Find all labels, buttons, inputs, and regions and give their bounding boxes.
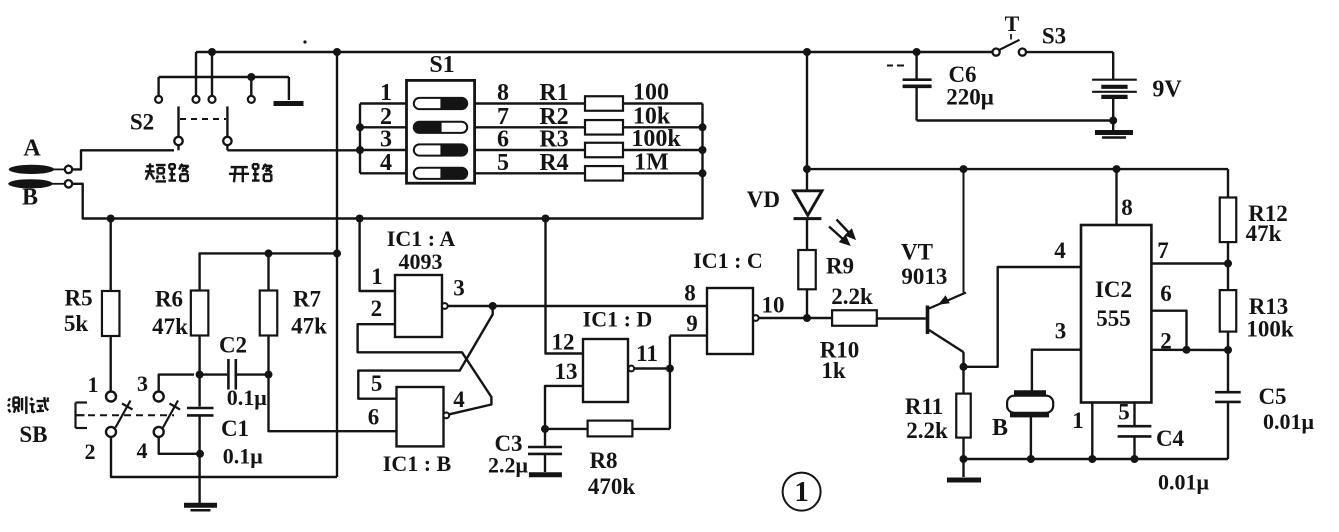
- svg-text:4: 4: [137, 438, 148, 463]
- svg-text:100k: 100k: [631, 126, 681, 152]
- svg-text:IC1 : D: IC1 : D: [583, 307, 653, 332]
- svg-text:1: 1: [794, 476, 809, 508]
- svg-text:6: 6: [497, 127, 509, 153]
- svg-text:IC1 : B: IC1 : B: [383, 451, 452, 476]
- svg-text:B: B: [992, 415, 1008, 441]
- svg-text:2.2k: 2.2k: [906, 418, 948, 443]
- svg-text:5: 5: [371, 371, 383, 396]
- svg-text:3: 3: [1055, 319, 1067, 344]
- svg-text:0.1μ: 0.1μ: [223, 444, 264, 469]
- svg-text:4: 4: [380, 150, 392, 176]
- svg-text:4: 4: [1054, 238, 1066, 263]
- svg-text:47k: 47k: [291, 314, 327, 339]
- svg-text:R9: R9: [826, 254, 854, 279]
- svg-text:8: 8: [1121, 195, 1133, 220]
- svg-text:6: 6: [368, 405, 380, 430]
- svg-text:C6: C6: [948, 62, 976, 87]
- svg-text:8: 8: [684, 281, 696, 306]
- svg-text:5: 5: [1118, 400, 1130, 425]
- svg-text:B: B: [22, 185, 38, 211]
- svg-text:9013: 9013: [901, 264, 947, 289]
- svg-text:C5: C5: [1258, 384, 1286, 409]
- svg-text:IC1 : C: IC1 : C: [693, 248, 763, 273]
- svg-text:2: 2: [85, 439, 96, 464]
- svg-text:2.2k: 2.2k: [831, 284, 873, 309]
- svg-text:R11: R11: [905, 394, 943, 419]
- svg-text:3: 3: [137, 371, 148, 396]
- svg-text:470k: 470k: [588, 474, 636, 499]
- svg-text:555: 555: [1096, 306, 1131, 331]
- svg-text:5: 5: [497, 150, 509, 176]
- svg-text:R4: R4: [539, 150, 568, 176]
- svg-text:S3: S3: [1042, 24, 1066, 49]
- svg-text:12: 12: [552, 330, 575, 355]
- svg-text:4093: 4093: [399, 249, 443, 274]
- svg-text:0.01μ: 0.01μ: [1158, 470, 1210, 495]
- svg-text:9: 9: [686, 311, 698, 336]
- svg-text:8: 8: [497, 80, 509, 106]
- svg-text:7: 7: [1157, 238, 1169, 263]
- svg-text:3: 3: [380, 127, 392, 153]
- svg-text:2.2μ: 2.2μ: [488, 453, 529, 478]
- svg-text:2: 2: [371, 296, 383, 321]
- svg-text:R3: R3: [539, 127, 568, 153]
- svg-text:2: 2: [1160, 329, 1172, 354]
- svg-text:VD: VD: [747, 187, 780, 212]
- svg-text:6: 6: [1160, 281, 1172, 306]
- svg-text:9V: 9V: [1152, 77, 1182, 103]
- svg-text:11: 11: [636, 341, 658, 366]
- svg-text:3: 3: [453, 276, 465, 301]
- svg-text:R8: R8: [589, 448, 617, 473]
- svg-text:100: 100: [633, 80, 669, 106]
- svg-text:SB: SB: [19, 422, 47, 447]
- svg-text:1: 1: [371, 264, 383, 289]
- svg-text:C1: C1: [221, 416, 249, 441]
- svg-text:C4: C4: [1156, 426, 1185, 451]
- svg-text:1: 1: [1072, 408, 1084, 433]
- svg-text:VT: VT: [901, 240, 933, 265]
- svg-text:IC2: IC2: [1095, 277, 1132, 302]
- svg-text:S1: S1: [429, 52, 454, 78]
- svg-text:R1: R1: [539, 80, 568, 106]
- svg-text:R7: R7: [293, 287, 321, 312]
- svg-text:R5: R5: [65, 286, 93, 311]
- svg-text:1k: 1k: [821, 358, 846, 383]
- svg-text:4: 4: [453, 387, 465, 412]
- svg-text:1: 1: [88, 372, 99, 397]
- svg-text:10: 10: [762, 293, 785, 318]
- svg-text:47k: 47k: [152, 314, 188, 339]
- svg-text:0.01μ: 0.01μ: [1263, 409, 1315, 434]
- svg-text:S2: S2: [130, 110, 154, 135]
- svg-text:R13: R13: [1249, 294, 1289, 319]
- svg-text:13: 13: [555, 359, 578, 384]
- svg-text:R6: R6: [155, 287, 183, 312]
- svg-text:IC1 : A: IC1 : A: [387, 226, 456, 251]
- svg-text:5k: 5k: [64, 311, 89, 336]
- svg-text:T: T: [1005, 11, 1020, 36]
- svg-text:C2: C2: [219, 333, 247, 358]
- svg-text:100k: 100k: [1246, 317, 1294, 342]
- svg-text:220μ: 220μ: [946, 85, 994, 110]
- svg-text:0.1μ: 0.1μ: [227, 385, 268, 410]
- svg-text:1M: 1M: [634, 149, 669, 175]
- svg-text:47k: 47k: [1246, 221, 1282, 246]
- svg-text:1: 1: [380, 80, 392, 106]
- svg-text:A: A: [23, 136, 41, 162]
